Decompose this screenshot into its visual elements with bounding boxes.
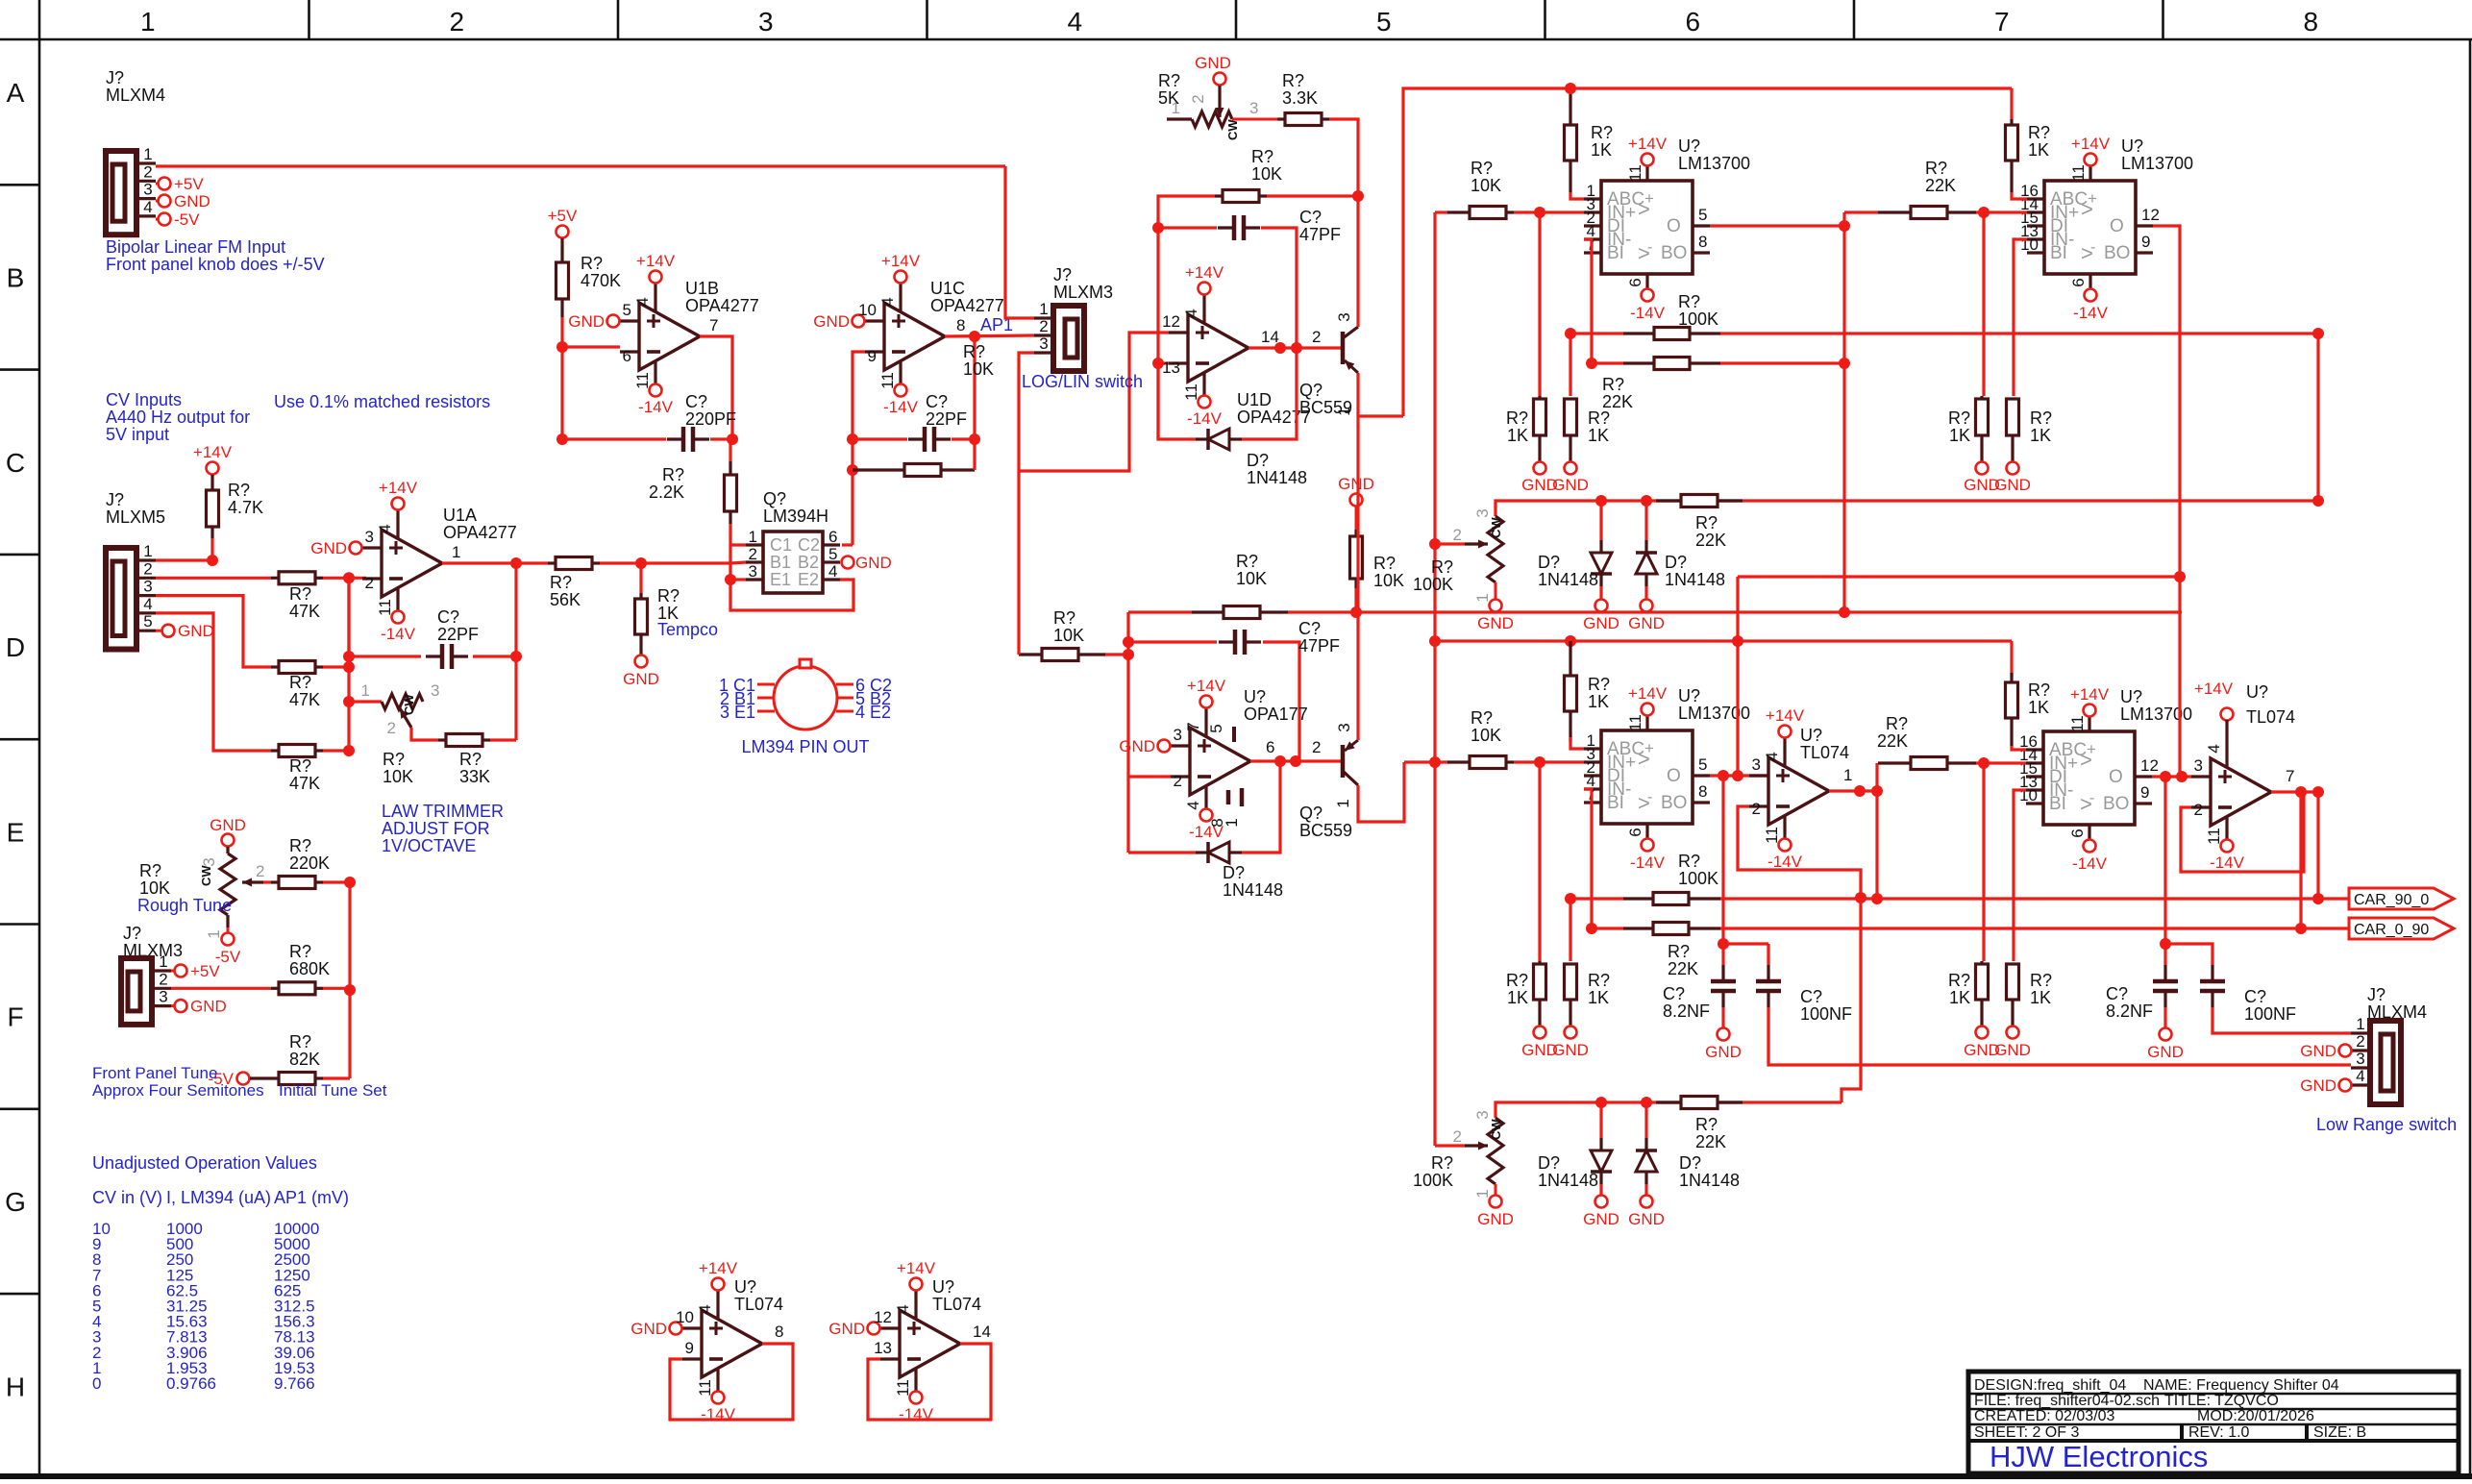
svg-text:BI: BI (2050, 243, 2067, 263)
svg-text:2: 2 (1312, 328, 1321, 346)
svg-text:2: 2 (256, 862, 264, 880)
svg-text:R?: R? (1506, 971, 1528, 990)
svg-text:B1: B1 (770, 553, 791, 572)
svg-text:J?: J? (106, 490, 124, 509)
svg-text:14: 14 (973, 1323, 991, 1341)
svg-text:GND: GND (190, 998, 227, 1016)
svg-text:C?: C? (685, 392, 707, 411)
svg-text:5: 5 (623, 301, 631, 319)
svg-text:GND: GND (1583, 614, 1619, 632)
svg-text:R?: R? (1373, 554, 1396, 573)
svg-text:GND: GND (630, 1320, 667, 1338)
svg-text:1V/OCTAVE: 1V/OCTAVE (382, 836, 476, 855)
svg-text:1N4148: 1N4148 (1538, 1171, 1598, 1190)
svg-text:1: 1 (140, 7, 156, 37)
svg-text:1: 1 (2356, 1015, 2364, 1033)
svg-text:3: 3 (365, 528, 374, 546)
svg-text:6: 6 (1685, 7, 1700, 37)
svg-text:+14V: +14V (2071, 135, 2111, 153)
svg-text:OPA4277: OPA4277 (685, 296, 759, 315)
svg-text:H: H (6, 1372, 25, 1401)
svg-text:6: 6 (1626, 278, 1644, 286)
svg-text:7: 7 (709, 316, 718, 334)
svg-text:5: 5 (828, 545, 837, 563)
svg-text:10K: 10K (1236, 569, 1267, 588)
svg-text:J?: J? (2367, 985, 2385, 1004)
svg-text:3 E1: 3 E1 (720, 703, 755, 722)
svg-text:GND: GND (1119, 737, 1155, 755)
svg-text:GND: GND (2147, 1043, 2184, 1061)
svg-text:4: 4 (143, 198, 152, 216)
svg-text:2: 2 (143, 162, 152, 181)
svg-text:12: 12 (874, 1308, 892, 1326)
svg-text:4: 4 (2205, 744, 2223, 753)
svg-text:FILE: freq_shifter04-02.sch: FILE: freq_shifter04-02.sch (1974, 1393, 2160, 1409)
svg-text:Q?: Q? (763, 489, 786, 508)
svg-text:0: 0 (92, 1374, 101, 1393)
svg-text:-: - (1647, 789, 1652, 805)
svg-text:-14V: -14V (883, 398, 919, 416)
svg-text:-14V: -14V (1767, 853, 1803, 871)
svg-text:R?: R? (963, 342, 985, 361)
svg-text:+14V: +14V (699, 1259, 738, 1277)
svg-text:-14V: -14V (2073, 304, 2109, 322)
svg-text:R?: R? (289, 836, 311, 855)
svg-text:1: 1 (143, 145, 152, 163)
svg-text:GND: GND (1477, 1210, 1514, 1228)
svg-text:OPA4277: OPA4277 (443, 523, 517, 542)
svg-text:CAR_90_0: CAR_90_0 (2354, 892, 2429, 908)
svg-text:2: 2 (1312, 738, 1321, 756)
svg-text:10: 10 (676, 1308, 694, 1326)
svg-text:4: 4 (1067, 7, 1082, 37)
svg-text:10K: 10K (1373, 571, 1404, 590)
svg-text:>: > (2081, 197, 2093, 221)
svg-text:GND: GND (1994, 476, 2031, 494)
svg-text:U?: U? (1678, 136, 1700, 156)
svg-text:100K: 100K (1678, 309, 1718, 329)
svg-text:LM394H: LM394H (763, 507, 828, 526)
svg-text:D?: D? (1679, 1153, 1701, 1173)
svg-text:2: 2 (365, 574, 374, 592)
svg-text:1K: 1K (1949, 426, 1970, 445)
svg-text:2: 2 (2194, 801, 2203, 819)
svg-text:47PF: 47PF (1299, 225, 1341, 244)
svg-text:CV in (V): CV in (V) (92, 1188, 162, 1207)
svg-text:1: 1 (159, 952, 167, 971)
svg-text:OPA177: OPA177 (1244, 705, 1308, 724)
svg-text:+14V: +14V (193, 443, 233, 461)
svg-text:470K: 470K (581, 271, 621, 290)
svg-text:U?: U? (2120, 687, 2142, 706)
svg-text:11: 11 (1626, 714, 1644, 731)
svg-text:2.2K: 2.2K (649, 482, 684, 502)
svg-text:LM13700: LM13700 (2120, 705, 2192, 724)
svg-text:BC559: BC559 (1299, 821, 1352, 840)
svg-text:1: 1 (1843, 766, 1852, 784)
svg-text:11: 11 (2068, 715, 2087, 732)
svg-text:5: 5 (1376, 7, 1392, 37)
svg-text:D?: D? (1247, 451, 1269, 470)
svg-text:R?: R? (1431, 557, 1453, 577)
svg-text:C?: C? (437, 607, 459, 627)
svg-text:10K: 10K (1251, 164, 1282, 184)
svg-text:Tempco: Tempco (657, 620, 718, 639)
svg-text:CREATED: 02/03/03: CREATED: 02/03/03 (1974, 1408, 2115, 1424)
svg-text:1: 1 (1223, 818, 1241, 827)
svg-text:11: 11 (2069, 164, 2088, 182)
svg-text:9.766: 9.766 (274, 1374, 315, 1393)
svg-text:5: 5 (1698, 206, 1707, 224)
svg-text:11: 11 (1763, 827, 1781, 844)
svg-text:220K: 220K (289, 853, 330, 873)
svg-text:R?: R? (2028, 680, 2050, 700)
svg-text:4: 4 (143, 595, 152, 613)
svg-text:4.7K: 4.7K (228, 498, 263, 517)
svg-text:D: D (6, 632, 25, 662)
svg-text:C2: C2 (798, 535, 820, 555)
svg-text:BO: BO (2104, 243, 2130, 263)
svg-text:R?: R? (1591, 123, 1613, 142)
svg-text:C?: C? (1800, 987, 1822, 1006)
svg-text:4: 4 (633, 297, 652, 306)
svg-text:+14V: +14V (1766, 706, 1805, 725)
svg-text:C?: C? (2106, 984, 2128, 1003)
svg-text:R?: R? (1471, 159, 1493, 178)
svg-text:22K: 22K (1925, 176, 1956, 195)
svg-text:3: 3 (1249, 99, 1258, 117)
svg-text:TL074: TL074 (932, 1295, 981, 1314)
svg-text:SIZE: B: SIZE: B (2313, 1424, 2366, 1441)
svg-text:+5V: +5V (190, 962, 220, 980)
svg-text:8: 8 (1698, 233, 1707, 251)
svg-text:CV Inputs: CV Inputs (106, 390, 182, 409)
svg-text:R?: R? (1948, 408, 1970, 428)
svg-text:2: 2 (1453, 1127, 1462, 1146)
svg-text:1K: 1K (2028, 698, 2049, 717)
svg-text:8: 8 (1698, 782, 1707, 801)
svg-text:9: 9 (868, 347, 877, 365)
svg-text:R?: R? (581, 254, 603, 273)
svg-text:1N4148: 1N4148 (1223, 880, 1283, 900)
svg-text:9: 9 (2141, 233, 2150, 251)
svg-text:47K: 47K (289, 602, 320, 621)
svg-text:6: 6 (623, 347, 631, 365)
svg-text:C?: C? (926, 392, 948, 411)
svg-text:5: 5 (1698, 755, 1707, 774)
svg-text:4: 4 (828, 562, 837, 581)
svg-text:2: 2 (1039, 317, 1048, 335)
svg-text:+14V: +14V (636, 252, 676, 270)
svg-text:R?: R? (1695, 513, 1718, 532)
svg-text:+14V: +14V (897, 1259, 936, 1277)
svg-text:MLXM3: MLXM3 (1053, 283, 1113, 302)
svg-text:12: 12 (2141, 206, 2160, 224)
svg-text:2: 2 (449, 7, 464, 37)
svg-text:3: 3 (200, 857, 218, 866)
svg-text:AP1 (mV): AP1 (mV) (274, 1188, 349, 1207)
svg-text:1: 1 (1473, 1189, 1492, 1198)
svg-text:11: 11 (376, 599, 394, 616)
svg-text:7: 7 (1184, 722, 1202, 730)
svg-text:CW: CW (199, 865, 213, 886)
svg-text:2: 2 (2356, 1032, 2364, 1051)
svg-text:6: 6 (2069, 278, 2088, 286)
svg-text:GND: GND (1994, 1041, 2031, 1059)
svg-text:GND: GND (623, 670, 659, 688)
svg-text:3: 3 (143, 578, 152, 596)
svg-text:5K: 5K (1158, 88, 1179, 108)
svg-text:U?: U? (2121, 136, 2143, 156)
svg-text:LOG/LIN switch: LOG/LIN switch (1022, 372, 1143, 391)
svg-text:10K: 10K (963, 359, 994, 379)
svg-text:Use 0.1% matched resistors: Use 0.1% matched resistors (274, 392, 490, 411)
svg-text:-: - (2089, 790, 2094, 806)
svg-text:U?: U? (1244, 687, 1266, 706)
svg-text:Unadjusted Operation Values: Unadjusted Operation Values (92, 1153, 317, 1173)
svg-text:11: 11 (1626, 164, 1644, 182)
svg-text:+14V: +14V (2194, 680, 2234, 698)
svg-text:6: 6 (1626, 828, 1644, 836)
svg-text:2: 2 (387, 719, 396, 737)
svg-text:56K: 56K (550, 590, 581, 609)
svg-text:CW: CW (1489, 1119, 1503, 1140)
svg-text:1K: 1K (2030, 426, 2051, 445)
svg-text:47K: 47K (289, 774, 320, 793)
svg-text:10K: 10K (139, 878, 170, 898)
svg-text:+14V: +14V (2070, 685, 2110, 704)
svg-text:J?: J? (123, 924, 141, 943)
svg-text:A440 Hz output for: A440 Hz output for (106, 408, 250, 427)
svg-text:TL074: TL074 (1800, 743, 1849, 762)
svg-text:R?: R? (383, 750, 405, 769)
svg-text:U?: U? (2246, 682, 2268, 702)
svg-text:4: 4 (376, 524, 394, 532)
svg-text:C?: C? (1298, 619, 1321, 638)
svg-text:C?: C? (1663, 984, 1685, 1003)
svg-text:1K: 1K (1507, 426, 1528, 445)
svg-text:E2: E2 (798, 570, 819, 589)
svg-text:R?: R? (1053, 608, 1075, 628)
svg-text:A: A (7, 78, 25, 108)
svg-text:6: 6 (2068, 829, 2087, 837)
svg-text:U?: U? (932, 1277, 954, 1297)
svg-text:22PF: 22PF (926, 409, 967, 429)
svg-text:U?: U? (1800, 726, 1822, 745)
svg-text:+14V: +14V (1185, 263, 1224, 282)
svg-text:R?: R? (1431, 1153, 1453, 1173)
svg-text:1: 1 (452, 543, 460, 561)
svg-text:1: 1 (143, 542, 152, 560)
svg-text:2: 2 (1174, 772, 1182, 790)
svg-text:R?: R? (1678, 852, 1700, 871)
svg-text:100NF: 100NF (1800, 1004, 1852, 1024)
svg-text:GND: GND (855, 554, 892, 572)
svg-text:1: 1 (1334, 799, 1352, 807)
svg-text:BO: BO (2103, 794, 2129, 814)
svg-text:LAW TRIMMER: LAW TRIMMER (382, 802, 504, 821)
svg-text:+5V: +5V (548, 207, 578, 225)
svg-text:Q?: Q? (1299, 381, 1323, 400)
svg-text:LM13700: LM13700 (2121, 154, 2193, 173)
svg-text:5: 5 (1207, 724, 1225, 732)
svg-text:1N4148: 1N4148 (1538, 570, 1598, 589)
svg-text:3: 3 (2356, 1050, 2364, 1068)
svg-text:+14V: +14V (1628, 135, 1668, 153)
svg-text:11: 11 (878, 372, 897, 389)
svg-text:GND: GND (174, 192, 210, 210)
svg-text:9: 9 (2140, 783, 2149, 802)
svg-text:Front Panel Tune: Front Panel Tune (92, 1064, 217, 1082)
svg-text:>: > (2080, 748, 2092, 772)
svg-text:CAR_0_90: CAR_0_90 (2354, 922, 2429, 938)
svg-text:1K: 1K (2028, 140, 2049, 160)
svg-text:O: O (1667, 216, 1681, 236)
svg-text:BI: BI (2049, 794, 2066, 814)
svg-text:-5V: -5V (174, 210, 200, 229)
svg-text:22K: 22K (1695, 1132, 1726, 1151)
svg-text:+5V: +5V (174, 175, 204, 193)
svg-text:Approx Four Semitones: Approx Four Semitones (92, 1081, 264, 1100)
svg-text:5: 5 (143, 612, 152, 631)
svg-text:13: 13 (874, 1339, 892, 1357)
svg-text:R?: R? (2030, 408, 2052, 428)
svg-text:1N4148: 1N4148 (1247, 468, 1307, 487)
svg-text:D?: D? (1223, 863, 1245, 882)
svg-text:3: 3 (749, 562, 757, 581)
svg-text:R?: R? (657, 586, 680, 606)
svg-text:NAME: Frequency Shifter 04: NAME: Frequency Shifter 04 (2143, 1377, 2339, 1394)
svg-text:22K: 22K (1695, 531, 1726, 550)
svg-text:3: 3 (1174, 726, 1182, 744)
svg-text:11: 11 (1182, 383, 1200, 401)
svg-text:1K: 1K (1507, 988, 1528, 1007)
svg-text:GND: GND (828, 1320, 865, 1338)
svg-text:2: 2 (1189, 94, 1207, 103)
svg-text:Initial Tune Set: Initial Tune Set (279, 1081, 387, 1100)
svg-text:8: 8 (956, 316, 965, 334)
svg-text:GND: GND (1552, 476, 1589, 494)
svg-text:C?: C? (1299, 208, 1322, 227)
svg-text:13: 13 (1162, 359, 1180, 377)
svg-text:E: E (7, 817, 25, 847)
svg-text:10K: 10K (1471, 176, 1501, 195)
svg-text:GND: GND (1628, 1210, 1665, 1228)
svg-text:10K: 10K (1053, 626, 1084, 645)
svg-text:I, LM394 (uA): I, LM394 (uA) (166, 1188, 271, 1207)
svg-text:1: 1 (749, 528, 757, 546)
svg-text:R?: R? (1948, 971, 1970, 990)
svg-text:CW: CW (402, 694, 416, 715)
svg-text:Rough Tune: Rough Tune (137, 896, 232, 915)
svg-text:Bipolar Linear FM Input: Bipolar Linear FM Input (106, 237, 285, 257)
svg-text:TITLE: TZQVCO: TITLE: TZQVCO (2164, 1393, 2279, 1409)
svg-text:GND: GND (1628, 614, 1665, 632)
svg-text:3: 3 (1335, 723, 1353, 731)
svg-text:3: 3 (758, 7, 774, 37)
svg-text:22K: 22K (1668, 959, 1698, 978)
svg-text:D?: D? (1538, 1153, 1560, 1173)
svg-text:GND: GND (1338, 475, 1374, 493)
svg-text:BI: BI (1607, 243, 1624, 263)
svg-text:8.2NF: 8.2NF (1663, 1002, 1710, 1021)
svg-text:B: B (7, 262, 25, 292)
svg-text:4: 4 (878, 297, 897, 306)
svg-text:GND: GND (210, 816, 246, 834)
svg-text:1N4148: 1N4148 (1679, 1171, 1740, 1190)
svg-text:-14V: -14V (638, 398, 674, 416)
svg-text:3: 3 (1473, 508, 1492, 517)
svg-text:-14V: -14V (2210, 853, 2245, 872)
svg-text:-14V: -14V (1187, 409, 1223, 428)
svg-text:U?: U? (1678, 686, 1700, 705)
svg-text:U?: U? (734, 1277, 756, 1297)
svg-text:GND: GND (1705, 1043, 1742, 1061)
svg-text:R?: R? (289, 673, 311, 692)
svg-text:U1A: U1A (443, 506, 477, 525)
svg-text:1K: 1K (1591, 140, 1612, 160)
svg-text:8: 8 (775, 1323, 783, 1341)
svg-text:680K: 680K (289, 959, 330, 978)
svg-text:LM394 PIN OUT: LM394 PIN OUT (741, 737, 869, 756)
svg-text:GND: GND (568, 312, 605, 331)
svg-text:TL074: TL074 (2246, 707, 2295, 727)
svg-text:R?: R? (1236, 552, 1258, 571)
svg-text:SHEET: 2 OF 3: SHEET: 2 OF 3 (1974, 1424, 2079, 1441)
svg-text:4: 4 (1763, 752, 1781, 760)
svg-text:12: 12 (2140, 756, 2159, 775)
svg-text:R?: R? (1251, 147, 1273, 166)
svg-text:GND: GND (2300, 1076, 2336, 1095)
svg-text:3.3K: 3.3K (1282, 88, 1318, 108)
svg-text:3: 3 (1335, 312, 1353, 321)
svg-text:R?: R? (2028, 123, 2050, 142)
svg-text:DESIGN:freq_shift_04: DESIGN:freq_shift_04 (1974, 1377, 2126, 1394)
svg-text:3: 3 (2194, 756, 2203, 775)
svg-text:-14V: -14V (1630, 304, 1666, 322)
svg-text:U1B: U1B (685, 279, 719, 298)
svg-text:R?: R? (1602, 375, 1624, 394)
svg-text:GND: GND (310, 539, 347, 557)
svg-text:1: 1 (1039, 300, 1048, 318)
svg-text:10K: 10K (1471, 726, 1501, 745)
svg-text:2: 2 (159, 970, 167, 988)
svg-text:R?: R? (289, 1032, 311, 1051)
svg-text:33K: 33K (459, 767, 490, 786)
svg-text:O: O (2110, 216, 2124, 236)
svg-text:R?: R? (228, 481, 250, 500)
svg-text:11: 11 (633, 372, 652, 389)
svg-text:-: - (1647, 239, 1652, 256)
svg-text:3: 3 (159, 988, 167, 1006)
svg-text:8.2NF: 8.2NF (2106, 1002, 2153, 1021)
svg-text:R?: R? (289, 756, 311, 776)
svg-text:11: 11 (2205, 828, 2223, 845)
svg-text:1: 1 (361, 681, 370, 700)
svg-text:3: 3 (1752, 755, 1761, 774)
svg-text:R?: R? (1678, 292, 1700, 311)
svg-text:U1C: U1C (930, 279, 965, 298)
svg-text:7: 7 (1994, 7, 2010, 37)
svg-text:R?: R? (1588, 675, 1610, 694)
svg-text:U1D: U1D (1237, 390, 1272, 409)
svg-text:4: 4 (1182, 309, 1200, 317)
svg-text:4: 4 (2356, 1067, 2364, 1085)
svg-text:10: 10 (858, 301, 877, 319)
svg-text:J?: J? (1053, 265, 1072, 284)
svg-text:GND: GND (1583, 1210, 1619, 1228)
svg-text:12: 12 (1162, 312, 1180, 331)
